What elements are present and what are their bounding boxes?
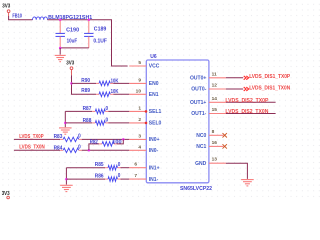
svg-text:NC0: NC0: [196, 133, 206, 139]
label R86: [95, 174, 104, 180]
op-amp U6 body (SN65LVCP22): [146, 60, 209, 183]
label 0.1UF: [93, 38, 107, 44]
wire SEL0 row: [65, 122, 92, 124]
wire SEL1 row: [65, 110, 92, 112]
svg-text:3: 3: [138, 133, 141, 139]
wire SEL vertical: [64, 111, 66, 127]
svg-text:1: 1: [138, 105, 141, 111]
svg-text:0: 0: [106, 118, 109, 124]
resistor R82 (100 ohm termination): [99, 142, 117, 147]
wire stub to ground 1: [59, 48, 61, 55]
svg-text:OUT1+: OUT1+: [190, 100, 206, 106]
svg-text:3V3: 3V3: [66, 60, 74, 66]
junction SEL0 branch: [64, 122, 67, 125]
resistor R86: [105, 177, 121, 182]
wire LVDS_TX0N: [14, 149, 60, 151]
pin 5 (VCC): [129, 60, 159, 70]
wire R86 to pin7: [121, 178, 130, 180]
capacitor C189: [84, 21, 93, 48]
resistor R88: [92, 121, 108, 126]
svg-text:R88: R88: [83, 118, 92, 124]
label U6: [150, 54, 157, 60]
pin 4 (IN0-): [129, 144, 158, 154]
power port 3V3 (top-left): [7, 10, 10, 16]
wire 3V3 down to EN1 row: [72, 75, 97, 94]
svg-text:OUT0-: OUT0-: [191, 87, 206, 93]
ground G2 (SEL): [59, 128, 72, 134]
pin 15 (OUT1-): [191, 107, 226, 117]
no-connect X pin 8: [223, 133, 227, 137]
wire pin12 to port: [226, 88, 243, 90]
pin 16 (NC1): [196, 140, 223, 150]
svg-text:R82: R82: [90, 139, 98, 145]
svg-text:0: 0: [78, 133, 81, 139]
label BLM18PG121SH1: [48, 15, 92, 21]
resistor R84: [60, 148, 82, 153]
wire pin14 net: [226, 101, 276, 103]
resistor R87: [92, 109, 108, 114]
pin 14 (OUT1+): [190, 96, 226, 106]
no-connect X pin 16: [223, 144, 227, 148]
resistor R83: [60, 137, 82, 142]
wire cap bottoms: [60, 47, 89, 49]
wire R84 to pin4: [82, 149, 130, 151]
svg-text:4: 4: [138, 144, 141, 150]
label R89: [81, 88, 90, 94]
svg-text:OUT1-: OUT1-: [191, 111, 206, 117]
svg-text:R89: R89: [81, 88, 90, 94]
svg-text:EN1: EN1: [149, 92, 159, 98]
label 10uF: [67, 39, 78, 45]
svg-text:11: 11: [212, 71, 217, 77]
junction R82 bottom: [88, 149, 91, 152]
label 10K (R89): [111, 89, 119, 95]
resistor R85: [105, 165, 121, 170]
pin 1 (SEL1): [129, 105, 161, 115]
label R88: [83, 118, 92, 124]
port LVDS_DIS1_TX0N: [244, 85, 291, 91]
wire 3V3 rail to ferrite: [9, 16, 33, 20]
resistor R89: [96, 92, 113, 97]
svg-text:0: 0: [78, 144, 81, 150]
svg-text:6: 6: [134, 162, 137, 168]
svg-text:R84: R84: [54, 145, 63, 151]
svg-text:IN0+: IN0+: [149, 137, 160, 143]
pin 12 (OUT0-): [191, 83, 226, 93]
wire LVDS_TX0P: [14, 138, 60, 140]
pin 11 (OUT0+): [190, 71, 226, 81]
wire R90 to pin9: [113, 82, 129, 84]
label 0 (R84): [78, 144, 81, 150]
pin 9 (EN0): [129, 77, 158, 87]
svg-text:8: 8: [212, 129, 215, 135]
svg-text:IN0-: IN0-: [149, 148, 159, 154]
svg-text:LVDS_DIS2_TX0N: LVDS_DIS2_TX0N: [225, 109, 268, 115]
ground G1 (decoupling): [55, 55, 66, 61]
svg-text:2: 2: [138, 117, 141, 123]
power port 3V3 (EN pullups): [70, 67, 73, 75]
wire pin11 to port: [226, 77, 243, 79]
label FB10: [12, 14, 22, 20]
label R90: [81, 78, 90, 84]
svg-text:R87: R87: [83, 106, 92, 112]
label 0 (R87): [106, 106, 109, 112]
label R85: [95, 162, 104, 168]
svg-text:SEL0: SEL0: [149, 121, 162, 127]
ground G4 (chip GND): [241, 180, 254, 186]
wire IN1- row: [66, 178, 105, 180]
wire R83 to pin3: [82, 138, 130, 140]
svg-text:IN1+: IN1+: [149, 165, 160, 171]
svg-text:10uF: 10uF: [67, 39, 78, 45]
ferrite bead FB10: [32, 17, 47, 20]
svg-text:OUT0+: OUT0+: [190, 75, 206, 81]
wire IN1 vertical: [65, 168, 67, 185]
label net LVDS_TX0P: [19, 134, 44, 140]
label 10K (R90): [111, 78, 119, 84]
pin 10 (EN1): [129, 88, 158, 98]
svg-text:13: 13: [212, 157, 218, 163]
wire EN0 row left: [72, 82, 97, 84]
svg-text:3V3: 3V3: [2, 4, 10, 10]
svg-text:12: 12: [212, 83, 218, 89]
svg-text:EN0: EN0: [149, 81, 159, 87]
wire R85 to pin6: [121, 167, 130, 169]
wire GND pin to ground: [226, 163, 248, 179]
wire R89 to pin10: [113, 93, 129, 95]
svg-text:0: 0: [118, 173, 121, 179]
svg-text:IN1-: IN1-: [149, 177, 159, 183]
wire R88 to pin2: [108, 122, 129, 124]
label R84: [54, 145, 63, 151]
label 3V3 (EN pullups): [66, 60, 74, 66]
svg-text:R90: R90: [81, 78, 90, 84]
wire R82 right elbow: [117, 139, 123, 144]
label net LVDS_TX0N: [19, 145, 45, 151]
svg-text:0: 0: [118, 162, 121, 168]
junction caps-ground: [59, 47, 62, 50]
junction R82 top: [122, 138, 125, 141]
label net LVDS_DIS2_TX0N: [225, 109, 268, 115]
svg-text:U6: U6: [150, 54, 157, 60]
label 0 (R83): [78, 133, 81, 139]
svg-text:C190: C190: [66, 28, 79, 34]
label 0 (R86): [118, 173, 121, 179]
svg-text:R83: R83: [54, 134, 63, 140]
label net LVDS_DIS2_TX0P: [225, 98, 269, 104]
label 0 (R88): [106, 118, 109, 124]
svg-text:5: 5: [138, 60, 141, 66]
junction rail-C189: [88, 19, 91, 22]
wire R87 to pin1: [108, 110, 129, 112]
label 3V3 (bottom-left): [2, 191, 10, 197]
svg-text:SN65LVCP22: SN65LVCP22: [180, 186, 212, 192]
svg-text:7: 7: [134, 173, 137, 179]
svg-text:0: 0: [106, 106, 109, 112]
wire IN1+ row: [66, 167, 105, 169]
svg-text:NC1: NC1: [196, 144, 206, 150]
svg-text:LVDS_TX0N: LVDS_TX0N: [19, 145, 45, 151]
capacitor C190: [56, 21, 65, 48]
svg-text:VCC: VCC: [149, 64, 160, 70]
svg-text:15: 15: [212, 107, 218, 113]
pin 13 (GND): [195, 157, 226, 167]
svg-text:100: 100: [112, 139, 122, 145]
pin 8 (NC0): [196, 129, 223, 139]
svg-text:GND: GND: [195, 161, 207, 167]
label R82: [90, 139, 98, 145]
junction rail-C190: [59, 19, 62, 22]
svg-text:0.1UF: 0.1UF: [93, 38, 107, 44]
pin 7 (IN1-): [129, 173, 158, 183]
pin 6 (IN1+): [129, 162, 159, 172]
wire R82 left elbow: [89, 144, 99, 150]
svg-text:10: 10: [136, 88, 142, 94]
pin 3 (IN0+): [129, 133, 159, 143]
pin 2 (SEL0): [129, 117, 161, 127]
power port 3V3 (bottom-left, clipped): [7, 196, 10, 199]
svg-text:LVDS_DIS2_TX0P: LVDS_DIS2_TX0P: [225, 98, 269, 104]
port LVDS_DIS1_TX0P: [244, 74, 291, 80]
svg-text:FB10: FB10: [12, 14, 22, 20]
wire pin15 net: [226, 113, 276, 115]
svg-text:LVDS_DIS1_TX0N: LVDS_DIS1_TX0N: [249, 85, 290, 91]
svg-text:R86: R86: [95, 174, 104, 180]
wire rail FB10 to VCC corner: [48, 20, 128, 66]
label 0 (R85): [118, 162, 121, 168]
label SN65LVCP22: [180, 186, 212, 192]
svg-text:LVDS_DIS1_TX0P: LVDS_DIS1_TX0P: [249, 74, 291, 80]
ground G3 (IN1): [60, 185, 73, 191]
svg-text:14: 14: [212, 96, 218, 102]
label C190: [66, 28, 79, 34]
label R87: [83, 106, 92, 112]
label 100 (R82): [112, 139, 122, 145]
label 3V3 (top-left): [2, 4, 10, 10]
svg-text:R85: R85: [95, 162, 104, 168]
label R83: [54, 134, 63, 140]
junction EN0 branch: [70, 82, 73, 85]
junction IN1- branch: [65, 178, 68, 181]
svg-text:9: 9: [138, 77, 141, 83]
svg-text:C189: C189: [94, 26, 107, 32]
svg-text:16: 16: [212, 140, 218, 146]
resistor R90: [96, 81, 113, 86]
label C189: [94, 26, 107, 32]
svg-text:SEL1: SEL1: [149, 109, 162, 115]
